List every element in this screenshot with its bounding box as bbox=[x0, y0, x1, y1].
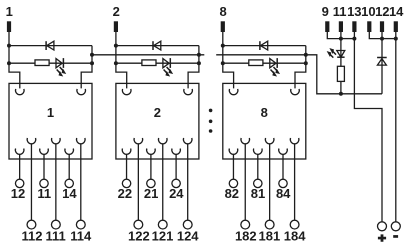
terminal 8 bbox=[221, 21, 225, 32]
contact socket pin 3 bbox=[40, 149, 49, 155]
contact socket pin 4 bbox=[158, 138, 167, 144]
contact socket pin 2 bbox=[134, 138, 143, 144]
svg-text:84: 84 bbox=[276, 186, 291, 201]
plug contact 114 bbox=[76, 220, 85, 229]
wire right rail into coil pin bbox=[81, 46, 92, 89]
contact socket pin 5 bbox=[172, 149, 181, 155]
wire terminal 1 down left rail into coil pin bbox=[9, 32, 20, 88]
wire socket to plug bbox=[68, 154, 70, 179]
contact socket pin 5 bbox=[279, 149, 288, 155]
contact socket pin 4 bbox=[52, 138, 61, 144]
svg-text:184: 184 bbox=[284, 229, 306, 244]
terminal 10 bbox=[367, 21, 371, 32]
plug contact 184 bbox=[290, 220, 299, 229]
relay box 1 bbox=[9, 83, 92, 159]
wire group2 join 12-14 bbox=[382, 38, 396, 40]
svg-text:21: 21 bbox=[144, 186, 158, 201]
wire socket to plug bbox=[244, 144, 246, 220]
wire LED to resistor bbox=[340, 57, 342, 66]
node bus tap bbox=[197, 53, 201, 57]
svg-text:122: 122 bbox=[128, 229, 150, 244]
terminal 12 bbox=[380, 21, 384, 32]
svg-text:182: 182 bbox=[235, 229, 257, 244]
node group2 junction 12 bbox=[380, 37, 384, 41]
terminal 1 bbox=[7, 21, 11, 32]
node group1 junction 11 bbox=[339, 37, 343, 41]
terminal 13 bbox=[352, 21, 356, 32]
coil socket right bbox=[291, 89, 300, 95]
svg-text:22: 22 bbox=[118, 186, 132, 201]
wire socket to plug bbox=[232, 154, 234, 179]
wire terminal 9 drop bbox=[327, 32, 341, 39]
coil socket right bbox=[77, 89, 86, 95]
wire top branch bbox=[223, 45, 306, 47]
node supply rail junction bbox=[339, 92, 343, 96]
svg-text:11: 11 bbox=[37, 186, 51, 201]
wire socket to plug bbox=[19, 154, 21, 179]
LED power indicator bbox=[327, 49, 345, 58]
svg-text:112: 112 bbox=[22, 229, 43, 244]
contact socket pin 5 bbox=[65, 149, 74, 155]
plug contact 22 bbox=[122, 179, 130, 187]
wire socket to plug bbox=[269, 144, 271, 220]
svg-text:2: 2 bbox=[113, 4, 120, 19]
wire socket to plug bbox=[187, 144, 189, 220]
svg-text:124: 124 bbox=[177, 229, 199, 244]
wire terminal 2 down left rail into coil pin bbox=[116, 32, 127, 88]
plug contact 81 bbox=[254, 179, 262, 187]
coil socket left bbox=[229, 89, 238, 95]
node junction right bottom bbox=[197, 61, 201, 65]
plug contact 121 bbox=[158, 220, 167, 229]
plug contact 11 bbox=[40, 179, 48, 187]
wire socket to plug bbox=[43, 154, 45, 179]
wire diode to supply rail bbox=[381, 65, 383, 94]
svg-text:181: 181 bbox=[259, 229, 281, 244]
LED 8 bbox=[270, 58, 280, 76]
plug contact 84 bbox=[279, 179, 287, 187]
svg-text:111: 111 bbox=[45, 229, 65, 244]
diode V2 bbox=[153, 41, 161, 50]
plug contact minus bbox=[391, 222, 400, 231]
node junction right bottom bbox=[304, 61, 308, 65]
svg-text:2: 2 bbox=[154, 105, 161, 120]
wire socket to plug bbox=[175, 154, 177, 179]
wire socket to plug bbox=[162, 144, 164, 220]
wire terminal 13 down to plus bbox=[354, 32, 382, 222]
wire right rail into coil pin bbox=[295, 46, 306, 89]
contact socket pin 1 bbox=[229, 149, 238, 155]
plug contact 122 bbox=[134, 220, 143, 229]
plug contact 12 bbox=[15, 179, 23, 187]
resistor R2 bbox=[142, 60, 156, 66]
svg-text:82: 82 bbox=[225, 186, 239, 201]
wire terminal 8 down left rail into coil pin bbox=[223, 32, 234, 88]
node junction left top bbox=[221, 44, 225, 48]
plug contact 182 bbox=[241, 220, 250, 229]
node bus tap bbox=[304, 53, 308, 57]
svg-text:14: 14 bbox=[389, 4, 404, 19]
wire top branch bbox=[116, 45, 199, 47]
plug contact 24 bbox=[172, 179, 180, 187]
wire bottom branch bbox=[9, 62, 92, 64]
svg-text:11: 11 bbox=[333, 4, 347, 19]
contact socket pin 6 bbox=[77, 138, 86, 144]
wire socket to plug bbox=[137, 144, 139, 220]
diode V1 bbox=[46, 41, 54, 50]
svg-text:12: 12 bbox=[11, 186, 25, 201]
coil socket left bbox=[122, 89, 131, 95]
wire bottom branch bbox=[223, 62, 306, 64]
plug contact 14 bbox=[65, 179, 73, 187]
contact socket pin 2 bbox=[27, 138, 36, 144]
contact socket pin 2 bbox=[241, 138, 250, 144]
node junction left bottom bbox=[114, 61, 118, 65]
svg-text:1: 1 bbox=[47, 105, 54, 120]
wire group1 join 11-13 bbox=[341, 38, 355, 40]
svg-text:9: 9 bbox=[322, 4, 329, 19]
plug contact 111 bbox=[51, 220, 60, 229]
terminal 2 bbox=[114, 21, 118, 32]
svg-text:10: 10 bbox=[361, 4, 375, 19]
contact socket pin 6 bbox=[290, 138, 299, 144]
wire socket to plug bbox=[55, 144, 57, 220]
relay box 8 bbox=[223, 83, 306, 159]
svg-text:121: 121 bbox=[152, 229, 174, 244]
plug contact 181 bbox=[265, 220, 274, 229]
wire bus to supply rail bbox=[306, 55, 382, 94]
terminal 9 bbox=[325, 21, 329, 32]
svg-text:12: 12 bbox=[375, 4, 389, 19]
node junction left top bbox=[114, 44, 118, 48]
wire top branch bbox=[9, 45, 92, 47]
contact socket pin 1 bbox=[15, 149, 24, 155]
LED 2 bbox=[163, 58, 173, 76]
relay box 2 bbox=[116, 83, 199, 159]
coil socket left bbox=[16, 89, 25, 95]
wire socket to plug bbox=[150, 154, 152, 179]
contact socket pin 3 bbox=[147, 149, 156, 155]
svg-text:8: 8 bbox=[261, 105, 268, 120]
svg-text:13: 13 bbox=[347, 4, 361, 19]
node junction left top bbox=[7, 44, 11, 48]
wire socket to plug bbox=[30, 144, 32, 220]
wire socket to plug bbox=[126, 154, 128, 179]
plug contact 124 bbox=[183, 220, 192, 229]
LED 1 bbox=[56, 58, 66, 76]
svg-text:1: 1 bbox=[6, 4, 13, 19]
plug contact 112 bbox=[27, 220, 36, 229]
contact socket pin 4 bbox=[265, 138, 274, 144]
node group1 junction 13 bbox=[352, 37, 356, 41]
node junction left bottom bbox=[221, 61, 225, 65]
svg-text:14: 14 bbox=[62, 186, 77, 201]
resistor R8 bbox=[249, 60, 263, 66]
wire socket to plug bbox=[294, 144, 296, 220]
node junction left bottom bbox=[7, 61, 11, 65]
contact socket pin 1 bbox=[122, 149, 131, 155]
wire socket to plug bbox=[257, 154, 259, 179]
plug contact plus bbox=[378, 222, 387, 231]
node junction right bottom bbox=[90, 61, 94, 65]
diode V8 bbox=[260, 41, 268, 50]
wire common coil bus segment B bbox=[216, 54, 306, 56]
terminal 14 bbox=[394, 21, 398, 32]
wire terminal 14 down to minus bbox=[395, 32, 397, 222]
node bus tap bbox=[90, 53, 94, 57]
wire terminal 10 drop bbox=[369, 32, 382, 39]
contact socket pin 3 bbox=[254, 149, 263, 155]
svg-text:24: 24 bbox=[169, 186, 184, 201]
wire terminal 12 to diode bbox=[381, 32, 383, 65]
svg-text:81: 81 bbox=[251, 186, 265, 201]
wire common coil bus segment A bbox=[92, 54, 204, 56]
diode reverse protection bbox=[377, 58, 387, 66]
terminal 11 bbox=[339, 21, 343, 32]
resistor R1 bbox=[35, 60, 49, 66]
coil socket right bbox=[184, 89, 193, 95]
resistor power LED bbox=[337, 66, 344, 81]
plug contact 82 bbox=[229, 179, 237, 187]
label minus bbox=[393, 235, 398, 238]
label plus bbox=[378, 234, 386, 241]
svg-text:114: 114 bbox=[70, 229, 92, 244]
wire socket to plug bbox=[80, 144, 82, 220]
wire terminal 11 drop to LED bbox=[340, 32, 342, 57]
plug contact 21 bbox=[147, 179, 155, 187]
wire bottom branch bbox=[116, 62, 199, 64]
ellipsis continuation dots bbox=[209, 109, 213, 133]
contact socket pin 6 bbox=[183, 138, 192, 144]
wire right rail into coil pin bbox=[188, 46, 199, 89]
wire socket to plug bbox=[282, 154, 284, 179]
node group2 junction 14 bbox=[394, 37, 398, 41]
wire resistor to supply rail bbox=[340, 81, 342, 93]
svg-text:8: 8 bbox=[219, 4, 226, 19]
